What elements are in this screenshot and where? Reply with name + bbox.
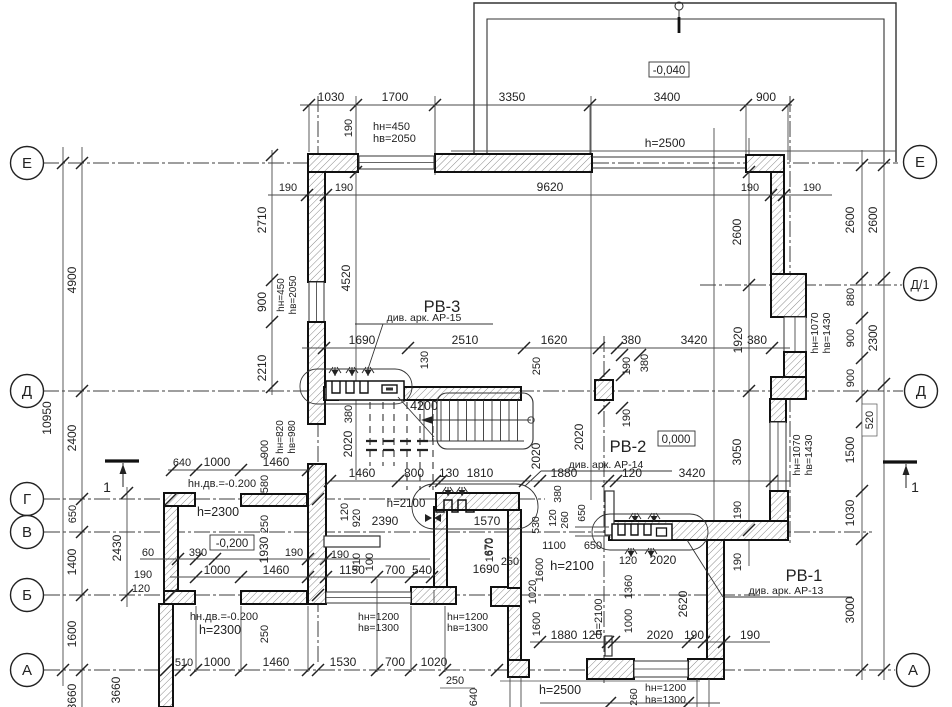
svg-text:h=2100: h=2100 [387, 498, 426, 510]
dim 1700 top [382, 90, 409, 104]
window A hn1200 [634, 661, 688, 677]
svg-text:4520: 4520 [339, 264, 353, 291]
dim 3660 inner rot [109, 676, 123, 703]
svg-text:920: 920 [351, 509, 363, 527]
svg-text:-0,040: -0,040 [653, 65, 686, 77]
svg-text:РВ-2: РВ-2 [610, 438, 647, 456]
svg-text:2510: 2510 [452, 333, 479, 347]
svg-text:1000: 1000 [204, 563, 231, 577]
svg-text:650: 650 [576, 504, 588, 522]
svg-text:2710: 2710 [255, 206, 269, 233]
svg-text:1600: 1600 [531, 612, 543, 636]
opening lines left of PB-1 [575, 527, 609, 536]
dim 190 rot top-left [343, 119, 355, 137]
dim rot 910-100 [339, 503, 376, 571]
svg-text:hв=1430: hв=1430 [821, 312, 833, 353]
svg-text:h=2300: h=2300 [197, 505, 239, 519]
svg-text:130: 130 [439, 466, 459, 480]
vertical chain line x862 [861, 150, 863, 680]
wall right upper (E to D1) [771, 172, 784, 274]
svg-text:120: 120 [339, 503, 351, 521]
dim row 9620 [268, 180, 832, 201]
svg-text:650: 650 [584, 540, 602, 552]
svg-text:1570: 1570 [474, 514, 501, 528]
axis line G (horizontal) [44, 498, 545, 500]
dim rot 530-120-260-650-380 [530, 485, 588, 534]
svg-text:3660: 3660 [65, 683, 79, 707]
wall right jut at D/1 [771, 274, 806, 317]
stair label 4200 [410, 399, 438, 413]
PB-2 vent arrows [442, 487, 468, 496]
vertical axis x790 (dash-dot) [789, 96, 791, 545]
svg-text:2600: 2600 [866, 206, 880, 233]
PB-3 vent arrows [329, 367, 374, 376]
stair bottom edge [428, 440, 524, 442]
dim rot 1670 [484, 538, 496, 562]
room label h2300 upper [188, 478, 256, 519]
window right D1 900 [784, 317, 806, 352]
svg-text:700: 700 [385, 563, 405, 577]
svg-text:2020: 2020 [529, 442, 543, 469]
axis line B (horizontal) [44, 594, 762, 596]
PB-3 leader to box [398, 397, 434, 437]
svg-text:1000: 1000 [204, 655, 231, 669]
dim chain right x884 [866, 159, 890, 676]
dim 2020 left rot [341, 405, 355, 458]
svg-text:120: 120 [619, 555, 637, 567]
partition V horizontal [324, 536, 380, 547]
svg-text:380: 380 [343, 405, 355, 423]
door leaf symbols [425, 514, 441, 522]
porch wall lines below A left [510, 677, 521, 707]
svg-text:2020: 2020 [650, 553, 677, 567]
label PB-2 sheet [525, 459, 672, 486]
porch wall lines below A right [697, 679, 709, 707]
svg-text:530: 530 [530, 516, 542, 534]
dim row 1150-700-540 y572b [339, 563, 432, 577]
svg-text:hв=2050: hв=2050 [373, 133, 416, 145]
dim rot 250 lower [259, 625, 271, 643]
wall lower-left room left [164, 493, 178, 604]
svg-text:3350: 3350 [499, 90, 526, 104]
vent block PB-2 castellation [436, 493, 519, 512]
label 1570 [474, 514, 501, 528]
svg-text:-0,200: -0,200 [216, 538, 249, 550]
svg-text:10950: 10950 [40, 401, 54, 435]
window B right 1460 [326, 592, 411, 603]
svg-text:910: 910 [351, 553, 363, 571]
PB-3 bubble [300, 369, 412, 404]
top dim line [300, 104, 792, 106]
svg-text:РВ-1: РВ-1 [786, 567, 823, 585]
dim rot 2620 [676, 590, 690, 617]
PB-1 vent arrows [629, 513, 660, 522]
svg-text:4900: 4900 [65, 266, 79, 293]
wall stair-hall band [436, 493, 519, 510]
svg-text:3050: 3050 [730, 438, 744, 465]
terrace slab bottom line [451, 150, 896, 152]
svg-text:190: 190 [343, 119, 355, 137]
svg-text:Е: Е [22, 155, 32, 172]
svg-text:1: 1 [911, 479, 919, 495]
label h2100 big [550, 558, 594, 573]
svg-text:0,000: 0,000 [662, 434, 691, 446]
wall right at D [771, 377, 806, 399]
svg-text:190: 190 [621, 409, 633, 427]
porch bottom dim line [540, 697, 720, 707]
svg-text:hн=1070: hн=1070 [809, 312, 821, 353]
axis line A (horizontal) [44, 669, 895, 671]
dim 190/380 rot column [598, 349, 651, 427]
svg-text:510: 510 [175, 657, 193, 669]
svg-text:3420: 3420 [679, 466, 706, 480]
window E 1700 [359, 156, 434, 169]
level label -0,200 [210, 535, 254, 550]
dim row 1000-1460 y572 [170, 563, 438, 583]
svg-text:260: 260 [559, 511, 571, 529]
wall B corner piece [164, 591, 195, 604]
dim rot 1600 right [534, 558, 546, 582]
label PB-3 sheet [355, 312, 493, 372]
opening E threshold lines [592, 157, 746, 168]
svg-text:380: 380 [552, 485, 564, 503]
axis bubble A right [897, 654, 930, 687]
svg-text:hв=1430: hв=1430 [803, 434, 815, 475]
dim row 640-1000-1460 y470 [166, 455, 314, 476]
vertical chain line x591 [590, 96, 592, 500]
svg-text:2390: 2390 [372, 514, 399, 528]
stair handrail outline [437, 393, 533, 449]
wall stair-hall right jamb [508, 510, 521, 588]
wall left mid (window to door) [308, 322, 325, 424]
dim row y637 [530, 628, 770, 648]
svg-text:120: 120 [132, 583, 150, 595]
axis bubble E right [904, 146, 937, 179]
wall right below window [784, 352, 806, 377]
dim 250 rot stair [531, 357, 543, 375]
svg-text:100: 100 [364, 553, 376, 571]
wall left lower (door to B) [308, 464, 326, 604]
svg-text:2400: 2400 [65, 424, 79, 451]
window label hn=450 top [373, 121, 416, 145]
dim row 390-190 y556 [140, 547, 430, 565]
svg-text:1020: 1020 [527, 580, 539, 604]
wall right lower vertical [707, 540, 724, 659]
svg-text:120: 120 [622, 466, 642, 480]
svg-text:1500: 1500 [843, 436, 857, 463]
label 670 rot [483, 538, 495, 556]
wall band PB-1 level [609, 521, 788, 540]
wall left upper (E to window) [308, 172, 325, 282]
vertical chain line x435 [434, 96, 436, 175]
axis bubble A left [11, 654, 44, 687]
vertical chain line x749 [748, 138, 750, 566]
dim chain left x82 [65, 157, 88, 707]
svg-text:120: 120 [547, 509, 559, 527]
vertical axis x604 (dash-dot) [603, 336, 605, 684]
svg-text:250: 250 [259, 625, 271, 643]
svg-text:А: А [22, 662, 32, 679]
dim 130 rot stair [419, 351, 431, 369]
svg-text:1460: 1460 [263, 655, 290, 669]
svg-text:2020: 2020 [572, 423, 586, 450]
svg-text:1600: 1600 [534, 558, 546, 582]
axis wall crossing ticks [160, 493, 324, 676]
svg-text:див. арк. АР-15: див. арк. АР-15 [387, 312, 462, 324]
vertical chain line x127 [126, 487, 128, 607]
svg-text:h=2300: h=2300 [199, 623, 241, 637]
ext lines bottom rooms [196, 579, 445, 672]
vertical chain line x884 [883, 150, 885, 680]
svg-text:1020: 1020 [421, 655, 448, 669]
wall bottom-center vertical [508, 604, 521, 660]
dim 1030 top [318, 90, 345, 104]
svg-text:1360: 1360 [623, 575, 635, 599]
dim 250 box [501, 556, 519, 568]
svg-text:190: 190 [732, 501, 744, 519]
terrace outer outline [474, 3, 896, 163]
dim chain right x862 [843, 159, 877, 676]
svg-text:1620: 1620 [541, 333, 568, 347]
wall E main segment 3350 [435, 154, 592, 172]
svg-text:190: 190 [279, 182, 297, 194]
axis bubble D right [905, 375, 938, 408]
svg-text:190: 190 [134, 569, 152, 581]
dim 900 top [756, 90, 776, 104]
svg-text:1810: 1810 [467, 466, 494, 480]
svg-text:190: 190 [732, 553, 744, 571]
svg-text:2430: 2430 [110, 534, 124, 561]
wall A segment left-mid [587, 659, 634, 679]
svg-text:Б: Б [22, 587, 32, 604]
svg-text:hн=1070: hн=1070 [791, 434, 803, 475]
wall E-left corner horiz [308, 154, 358, 172]
bottom dim row y663 [175, 655, 503, 676]
svg-text:1: 1 [103, 479, 111, 495]
vertical chain line x356 [355, 96, 357, 480]
svg-text:2620: 2620 [676, 590, 690, 617]
svg-text:Д: Д [22, 383, 32, 400]
wall right below D [770, 399, 786, 422]
svg-text:hн.дв.=-0.200: hн.дв.=-0.200 [190, 611, 258, 623]
svg-text:2020: 2020 [341, 430, 355, 457]
svg-text:1670: 1670 [484, 538, 496, 562]
dim rot h2100 narrow [593, 598, 605, 635]
PB-2 bubble [412, 484, 538, 529]
dim 580/900 rot [259, 440, 271, 493]
partition mid vertical [605, 491, 614, 535]
svg-text:2210: 2210 [255, 354, 269, 381]
label 1100-650 [542, 540, 602, 552]
svg-text:1920: 1920 [731, 326, 745, 353]
svg-text:hв=1300: hв=1300 [358, 622, 399, 634]
window label right hn1070 lower [791, 434, 815, 475]
axis bubble V left [11, 516, 44, 549]
dim 2020 right rot [529, 442, 543, 469]
svg-text:hн=820: hн=820 [275, 420, 286, 454]
dim 3400 top [654, 90, 681, 104]
svg-text:hн.дв.=-0.200: hн.дв.=-0.200 [188, 478, 256, 490]
wall B segment [241, 591, 307, 604]
label 1690 bath [473, 562, 500, 576]
dim 250-640 bottom [440, 675, 480, 706]
svg-text:1460: 1460 [349, 466, 376, 480]
svg-text:hн=450: hн=450 [276, 278, 287, 312]
svg-text:190: 190 [741, 182, 759, 194]
svg-text:hв=980: hв=980 [287, 420, 298, 454]
svg-text:Г: Г [23, 491, 31, 508]
svg-text:3660: 3660 [109, 676, 123, 703]
svg-text:див. арк. АР-13: див. арк. АР-13 [749, 585, 824, 597]
svg-text:1460: 1460 [263, 455, 290, 469]
terrace flag marker [675, 2, 683, 33]
wall bathroom corner [491, 587, 521, 606]
top dim ticks [303, 99, 794, 111]
axis bubble G left [11, 483, 44, 516]
svg-text:650: 650 [67, 505, 79, 523]
dim row 1690-2510-1620-380-3420 [302, 326, 790, 354]
svg-text:1460: 1460 [263, 563, 290, 577]
svg-text:1700: 1700 [382, 90, 409, 104]
svg-text:2300: 2300 [866, 324, 880, 351]
dim row 120-2020 y564 [619, 553, 677, 567]
level label -0,040 [649, 62, 689, 77]
svg-text:190: 190 [331, 549, 349, 561]
svg-text:540: 540 [412, 563, 432, 577]
partition mid vertical lower [605, 636, 612, 656]
svg-text:1030: 1030 [843, 499, 857, 526]
stair upper flight dashed stringers [366, 441, 430, 450]
svg-text:700: 700 [385, 655, 405, 669]
svg-text:9620: 9620 [537, 180, 564, 194]
dim row 1460-800-130-1810 [324, 466, 790, 487]
svg-text:900: 900 [756, 90, 776, 104]
svg-text:1000: 1000 [623, 609, 635, 633]
dim rot 1360-1000 [623, 575, 635, 633]
PB-1 bubble [592, 514, 708, 550]
label hn820 [275, 420, 298, 454]
label h2500 bottom [500, 681, 700, 697]
stair treads [424, 400, 518, 441]
label PB-2 [610, 438, 647, 456]
svg-text:800: 800 [404, 466, 424, 480]
wall G corner piece [164, 493, 195, 506]
svg-text:130: 130 [419, 351, 431, 369]
section marker 1 right [883, 462, 919, 495]
level label 0,000 [658, 431, 695, 446]
svg-text:Д: Д [916, 383, 926, 400]
svg-text:h=2500: h=2500 [645, 136, 686, 150]
label h2100 hall [387, 498, 426, 510]
vertical axis x318 (dash-dot) [317, 96, 319, 664]
svg-text:1690: 1690 [473, 562, 500, 576]
svg-text:h=2500: h=2500 [539, 683, 581, 697]
vertical chain line x63 [62, 147, 64, 686]
svg-text:250: 250 [446, 675, 464, 687]
dim chain 4520 [339, 166, 362, 291]
wall E right segment 900 [746, 155, 784, 172]
window label right hn1070 upper [809, 312, 833, 353]
svg-text:2600: 2600 [843, 206, 857, 233]
wall A foot left [508, 660, 529, 677]
svg-text:hн=450: hн=450 [373, 121, 410, 133]
svg-text:1100: 1100 [542, 540, 566, 552]
stair upper flight dashed treads [370, 402, 433, 490]
svg-text:hн=1200: hн=1200 [645, 682, 686, 694]
dim 3350 top [499, 90, 526, 104]
window right hn1070 [770, 422, 786, 491]
top dim ext lines [309, 105, 788, 160]
svg-text:250: 250 [259, 515, 271, 533]
svg-text:60: 60 [142, 547, 154, 559]
svg-text:1690: 1690 [349, 333, 376, 347]
vent block PB-3 castellation [326, 381, 404, 400]
dim chain 2710/900/2210 [255, 149, 299, 393]
vertical chain line x272 [271, 150, 273, 395]
svg-text:380: 380 [747, 333, 767, 347]
svg-text:2020: 2020 [647, 628, 674, 642]
svg-text:250: 250 [531, 357, 543, 375]
svg-text:880: 880 [845, 288, 857, 306]
svg-text:1530: 1530 [330, 655, 357, 669]
window label hn1200 pair [358, 611, 488, 634]
label PB-3 [424, 298, 461, 316]
svg-text:3000: 3000 [843, 596, 857, 623]
vertical chain line x714 [713, 128, 715, 664]
axis line V (horizontal) [44, 531, 872, 533]
svg-text:900: 900 [255, 292, 269, 312]
svg-text:380: 380 [621, 333, 641, 347]
wall below B left vertical [159, 604, 173, 707]
svg-text:1600: 1600 [65, 620, 79, 647]
svg-text:Е: Е [915, 154, 925, 171]
wall right (window to corner) [770, 491, 788, 522]
axis bubble D1 right [904, 268, 937, 301]
axis bubble E left [11, 147, 44, 180]
label PB-1 [786, 567, 823, 585]
svg-text:1030: 1030 [318, 90, 345, 104]
svg-text:hв=1300: hв=1300 [447, 622, 488, 634]
svg-text:900: 900 [845, 369, 857, 387]
svg-text:1000: 1000 [204, 455, 231, 469]
opening label h=2500 terrace [645, 136, 686, 150]
svg-text:1400: 1400 [65, 548, 79, 575]
svg-text:390: 390 [189, 547, 207, 559]
terrace inner outline [487, 19, 884, 163]
wall D band with stairs [324, 387, 521, 400]
svg-text:640: 640 [468, 688, 480, 706]
wall bathroom band B [411, 587, 456, 604]
label PB-1 sheet [687, 540, 852, 597]
axis bubble D left [11, 375, 44, 408]
dim chain 2600 interior [730, 166, 755, 571]
axis line D (horizontal) [43, 390, 903, 392]
wall bathroom left vertical [434, 507, 447, 587]
svg-text:380: 380 [639, 354, 651, 372]
dim chain left x63 [40, 157, 69, 676]
column at D axis [595, 380, 613, 400]
dim rot 1930/250 [257, 515, 271, 564]
svg-text:1930: 1930 [257, 536, 271, 563]
dim 2020 mid rot [572, 423, 586, 450]
label 2390 [372, 514, 399, 528]
axis bubble B left [11, 579, 44, 612]
dim chain left x127 [110, 487, 154, 601]
wall A segment right [688, 659, 724, 679]
svg-text:В: В [22, 524, 32, 541]
svg-text:Д/1: Д/1 [911, 278, 930, 292]
svg-text:А: А [908, 662, 918, 679]
